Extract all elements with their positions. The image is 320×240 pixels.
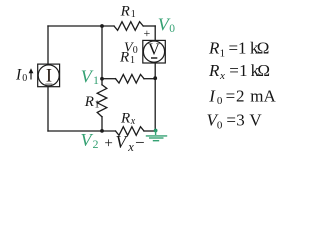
ground symbol xyxy=(146,131,167,141)
wire left vertical lower xyxy=(47,87,49,131)
svg-text:R: R xyxy=(84,94,94,110)
svg-text:R: R xyxy=(119,50,129,66)
svg-text:1: 1 xyxy=(95,99,100,110)
svg-text:1: 1 xyxy=(93,73,99,87)
svg-text:−: − xyxy=(135,133,145,152)
svg-text:1: 1 xyxy=(130,55,135,66)
junction dot node V1 xyxy=(100,77,104,81)
current source underline xyxy=(45,83,52,85)
wire right vertical to voltmeter xyxy=(154,26,156,40)
junction dot node V2 xyxy=(100,129,104,133)
svg-text:I: I xyxy=(46,66,52,86)
svg-text:V: V xyxy=(148,40,160,59)
svg-text:x: x xyxy=(127,140,134,154)
voltmeter box xyxy=(143,40,166,63)
ground node green dot xyxy=(154,129,158,133)
current source I0 box xyxy=(38,64,60,87)
wire right vertical below voltmeter xyxy=(154,63,156,131)
resistor R1 middle zigzag xyxy=(116,74,145,83)
voltmeter circle xyxy=(143,41,164,62)
resistor Rx zigzag xyxy=(116,127,145,136)
svg-text:x: x xyxy=(130,116,136,127)
wire bottom rail left xyxy=(48,130,116,132)
resistor R1 top zigzag xyxy=(114,22,143,31)
svg-text:+: + xyxy=(104,136,112,152)
svg-text:2: 2 xyxy=(93,137,99,151)
wire top rail right xyxy=(143,25,155,27)
junction dot right middle node xyxy=(153,76,157,80)
svg-text:0: 0 xyxy=(169,23,175,35)
svg-text:V0=3V: V0=3V xyxy=(207,111,263,132)
svg-text:I0=2mA: I0=2mA xyxy=(208,86,276,107)
I0 arrow up xyxy=(29,68,34,79)
current source circle xyxy=(38,65,59,86)
wire left vertical upper xyxy=(47,26,49,64)
wire middle vertical upper xyxy=(101,26,103,79)
wire middle rail left stub xyxy=(102,78,116,80)
wire middle vertical lower xyxy=(101,117,103,131)
svg-text:I: I xyxy=(15,67,22,84)
svg-text:V: V xyxy=(116,132,129,152)
svg-text:Rx=1kΩ: Rx=1kΩ xyxy=(208,61,270,82)
junction dot top node xyxy=(100,24,104,28)
svg-text:1: 1 xyxy=(131,9,136,20)
wire middle rail right stub xyxy=(144,78,155,80)
wire bottom rail right xyxy=(144,130,155,132)
svg-text:0: 0 xyxy=(22,73,27,84)
svg-text:0: 0 xyxy=(133,45,138,56)
svg-text:R1=1kΩ: R1=1kΩ xyxy=(208,39,269,60)
svg-text:R: R xyxy=(120,3,130,19)
wire top rail left xyxy=(48,25,114,27)
resistor R1 left vertical zigzag xyxy=(97,85,107,117)
svg-text:V: V xyxy=(81,66,94,86)
svg-text:R: R xyxy=(120,111,130,127)
svg-text:+: + xyxy=(144,26,151,40)
wire middle vertical stub below V1 xyxy=(101,79,103,85)
voltmeter minus line xyxy=(151,57,157,59)
